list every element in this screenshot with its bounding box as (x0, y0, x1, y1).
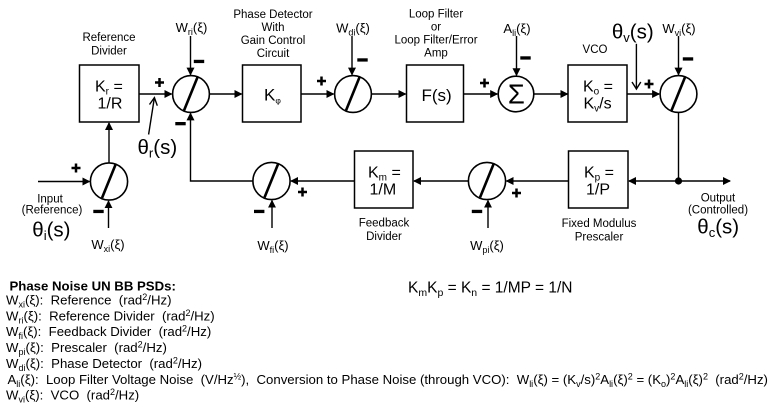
wire Kphi to S2 (301, 93, 334, 95)
svg-text:Wdi(ξ): Phase Detector (rad2: Wdi(ξ): Phase Detector (rad2/Hz) (6, 356, 202, 374)
wire S2 to F(s) (371, 93, 405, 95)
summer S5 prescaler summing junction (468, 162, 505, 199)
svg-text:Divider: Divider (366, 231, 402, 243)
svg-text:Wfi(ξ): Feedback Divider (ra: Wfi(ξ): Feedback Divider (rad2/Hz) (6, 324, 211, 342)
noise arrow Wfi into S6 bottom (271, 201, 273, 228)
sign minus right of Wri arrow (194, 60, 204, 63)
wire S3 down to junction (678, 112, 680, 181)
svg-text:Wpi(ξ): Prescaler (rad2/Hz): Wpi(ξ): Prescaler (rad2/Hz) (6, 340, 167, 358)
svg-text:VCO: VCO (583, 44, 608, 56)
pointer arrow theta_r up to wire (149, 98, 158, 135)
summer S4 input summing junction (90, 163, 127, 200)
noise arrow Ali into SIGMA top (516, 36, 518, 75)
wire Km to S6 (291, 180, 354, 182)
svg-text:Σ: Σ (508, 79, 525, 110)
svg-text:Loop Filter/Error: Loop Filter/Error (394, 35, 477, 47)
svg-text:θc(s): θc(s) (697, 216, 739, 241)
summer S3 VCO output summing junction (660, 76, 697, 113)
summer S2 phase detector input summing junction (335, 76, 372, 113)
sign minus right of Ali arrow (520, 56, 530, 59)
sign plus left of S1 (155, 78, 164, 87)
label Loop Filter or Loop Filter/Error Amp (394, 9, 477, 60)
svg-text:θi(s): θi(s) (32, 219, 70, 244)
label Phase Detector With Gain Control Circuit (233, 9, 312, 60)
noise arrow Wpi into S5 bottom (487, 201, 489, 228)
block KM feedback divider Km=1/M (355, 151, 414, 208)
svg-text:1/M: 1/M (370, 182, 397, 199)
svg-text:Reference: Reference (82, 32, 135, 44)
noise arrow Wvi into S3 top (678, 36, 680, 75)
summer S1 reference summing junction (173, 76, 210, 113)
label Feedback Divider (359, 218, 410, 244)
svg-text:Fixed Modulus: Fixed Modulus (562, 218, 637, 230)
label Fixed Modulus Prescaler (562, 218, 637, 244)
block KP prescaler Kp=1/P (569, 151, 629, 208)
wire Ko to S3 (627, 93, 659, 95)
summer S6 feedback summing junction (253, 162, 290, 199)
noise arrow Wxi into S4 (108, 201, 110, 228)
block KPHI phase detector (243, 65, 302, 122)
wire Kp to S5 (507, 180, 569, 182)
sign minus below S1 (175, 122, 185, 125)
svg-text:Ali(ξ): Loop Filter Voltage N: Ali(ξ): Loop Filter Voltage Noise (V/Hz½… (8, 371, 768, 389)
svg-text:(Reference): (Reference) (22, 205, 83, 217)
wire S6 left and up to S1 bottom (191, 113, 253, 181)
sign plus left of S3 (645, 80, 654, 89)
svg-text:θr(s): θr(s) (138, 136, 178, 161)
label Reference Divider (82, 32, 135, 58)
pointer arrow theta_v down to wire (632, 44, 641, 89)
sign minus right of Wvi arrow (683, 57, 693, 60)
label Input (Reference) theta_i (22, 194, 83, 244)
svg-text:F(s): F(s) (422, 86, 452, 105)
sign minus left of Wxi arrow (93, 210, 103, 213)
sign plus left of SIGMA (480, 79, 489, 88)
svg-text:Feedback: Feedback (359, 218, 410, 230)
wire S1 to Kphi (209, 93, 241, 95)
svg-text:KmKp = Kn = 1/MP = 1/N: KmKp = Kn = 1/MP = 1/N (408, 279, 573, 299)
label Output (Controlled) theta_c (688, 193, 748, 241)
block F(s) loop filter (407, 65, 464, 122)
svg-text:Loop Filter: Loop Filter (409, 9, 464, 21)
noise arrow Wdi into S2 top (351, 36, 353, 75)
junction node dot (675, 177, 682, 184)
wire junction to Kp (629, 180, 679, 182)
svg-text:θv(s): θv(s) (612, 21, 654, 46)
svg-text:Divider: Divider (91, 46, 127, 58)
svg-text:Phase Detector: Phase Detector (233, 9, 312, 21)
sign plus right of S5 (512, 189, 521, 198)
wire SIGMA to Ko (534, 93, 568, 95)
noise arrow Wri into S1 top (190, 36, 192, 75)
wire S5 to Km (414, 180, 468, 182)
wire F(s) to SIGMA (464, 93, 498, 95)
summer SIGMA loop filter output summer (498, 76, 534, 112)
wire input arrow to S4 (38, 181, 89, 183)
svg-text:With: With (262, 22, 285, 34)
svg-text:1/P: 1/P (586, 182, 610, 199)
svg-text:Circuit: Circuit (257, 48, 290, 60)
wire junction to output arrow (679, 180, 731, 182)
svg-text:or: or (431, 22, 441, 34)
svg-text:Gain Control: Gain Control (241, 35, 306, 47)
wire Kr to S1 (139, 93, 172, 95)
svg-text:Prescaler: Prescaler (575, 232, 624, 244)
sign plus right of S6 (298, 188, 307, 197)
svg-text:Wri(ξ): Reference Divider (r: Wri(ξ): Reference Divider (rad2/Hz) (6, 308, 215, 326)
wire S4 up to Kr (108, 123, 110, 163)
block KR reference divider Kr=1/R (80, 65, 140, 122)
sign plus above input wire (72, 164, 81, 173)
svg-text:Wxi(ξ): Reference (rad2/Hz): Wxi(ξ): Reference (rad2/Hz) (6, 292, 171, 310)
svg-text:Amp: Amp (424, 48, 448, 60)
block KO VCO Ko=Kv/s (568, 65, 627, 122)
svg-text:Ali(ξ): Ali(ξ) (503, 21, 530, 38)
sign minus left of Wpi arrow (472, 210, 482, 213)
sign plus left of S2 (317, 77, 326, 86)
svg-text:Output: Output (701, 193, 736, 205)
svg-text:Phase Noise UN BB PSDs:: Phase Noise UN BB PSDs: (10, 279, 176, 294)
sign minus right of Wdi arrow (357, 58, 367, 61)
svg-text:Wvi(ξ): VCO (rad2/Hz): Wvi(ξ): VCO (rad2/Hz) (6, 387, 139, 405)
sign minus left of Wfi arrow (254, 210, 264, 213)
svg-text:1/R: 1/R (98, 96, 123, 113)
